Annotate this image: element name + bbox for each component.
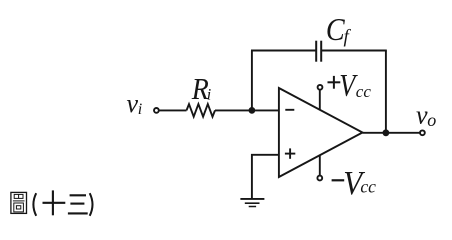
capacitor Cf (316, 41, 321, 62)
terminal +Vcc (318, 85, 323, 90)
svg-text:f: f (344, 27, 352, 48)
terminal -Vcc (317, 176, 322, 181)
wire (319, 155, 321, 176)
node junction inverting input (249, 107, 256, 114)
op-amp non-inverting input marker (285, 148, 295, 158)
svg-text:i: i (207, 86, 211, 103)
caption 圖(十三) (11, 190, 93, 215)
wire (251, 51, 253, 111)
label vo (416, 101, 436, 130)
svg-text:i: i (138, 101, 142, 118)
label vi (127, 89, 143, 118)
label Cf (326, 11, 352, 47)
ground (240, 199, 264, 207)
resistor Ri (187, 104, 216, 117)
terminal vi input (154, 108, 159, 113)
svg-text:o: o (427, 110, 436, 130)
label Ri (191, 73, 211, 107)
op-amp U1 (279, 88, 363, 177)
terminal vo (420, 130, 425, 135)
label -Vcc (332, 165, 377, 203)
svg-text:v: v (416, 101, 428, 130)
wire (385, 51, 387, 133)
svg-text:cc: cc (360, 176, 376, 196)
wire (252, 155, 279, 199)
wire (363, 132, 420, 134)
wire (319, 90, 321, 110)
label +Vcc (328, 68, 372, 103)
svg-text:v: v (127, 89, 139, 118)
wire (321, 50, 387, 52)
svg-text:cc: cc (356, 82, 372, 101)
op-amp inverting input marker (285, 109, 294, 111)
wire (251, 50, 316, 52)
node output junction (383, 129, 390, 136)
wire (215, 109, 279, 111)
wire (159, 109, 186, 111)
